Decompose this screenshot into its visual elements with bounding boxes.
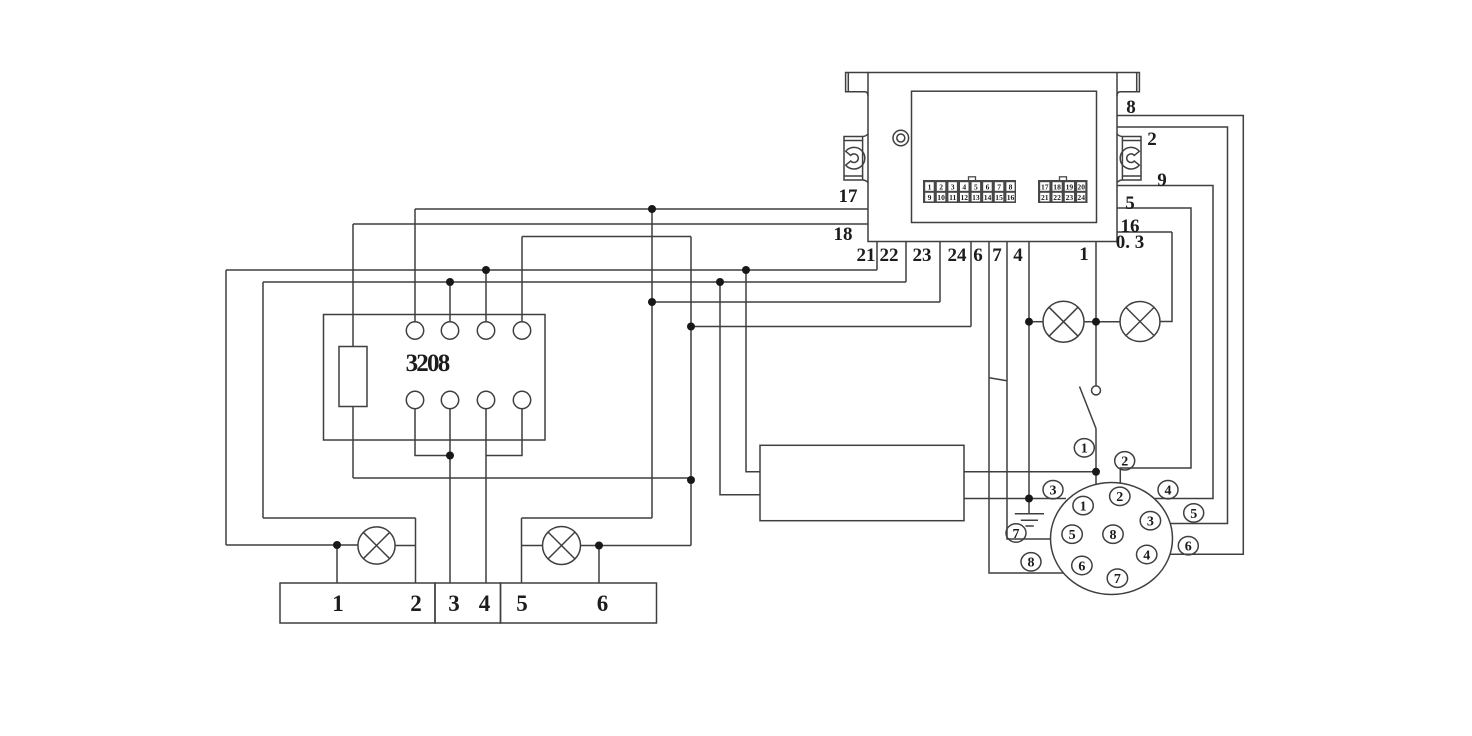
control unit U1 outer case [868, 73, 1117, 242]
wire 22 horizontal [263, 281, 906, 283]
connector block J1 pins 1-16 [923, 177, 1016, 203]
svg-text:20: 20 [1077, 182, 1085, 191]
relay terminal b2 [441, 391, 458, 408]
node at wire4 lamp E3 [1025, 318, 1033, 326]
node at 478/691 [687, 476, 695, 484]
node at 22/720 [716, 278, 724, 286]
relay terminal c4 [513, 322, 530, 339]
wire lamp E3 left link [1029, 321, 1043, 323]
wire c4 riser [521, 237, 523, 322]
wire lamp E2 left link [522, 545, 543, 547]
right mounting bracket [1117, 134, 1141, 183]
svg-text:7: 7 [997, 182, 1001, 191]
connector block J1 cells row2 pins 9-16 [925, 193, 1014, 202]
svg-text:7: 7 [992, 245, 1002, 266]
node at 21/c3 [482, 266, 490, 274]
svg-text:1: 1 [1079, 244, 1089, 265]
P1 pin 3 [1140, 512, 1160, 530]
top-right mounting tab [1117, 73, 1139, 96]
svg-text:18: 18 [1053, 182, 1061, 191]
P1 pin 8 [1103, 525, 1123, 543]
svg-text:13: 13 [972, 193, 980, 202]
P1 pin 6 [1072, 556, 1092, 574]
relay terminal b4 [513, 391, 530, 408]
wire b1 drop [415, 409, 450, 456]
connector block J1 cells row1 pins 1-8 [925, 182, 1014, 191]
wire 22 stub from box [905, 242, 907, 283]
wire 24 stub from box [970, 242, 972, 327]
svg-text:8: 8 [1028, 556, 1035, 571]
svg-text:1: 1 [1080, 500, 1087, 515]
svg-text:8: 8 [1126, 97, 1136, 118]
wire c3 riser [485, 270, 487, 322]
relay terminal c3 [477, 322, 494, 339]
wire 2 run [1117, 127, 1228, 524]
svg-text:9: 9 [928, 193, 932, 202]
terminal strip X3 (5,6) [501, 583, 657, 623]
node at wire1 lamps [1092, 318, 1100, 326]
wire lamp E4 right link [1160, 232, 1172, 322]
wire b4 drop [486, 409, 522, 456]
wire lamp E2 top feed horizontal [522, 517, 653, 519]
wire 22 to terminal2 horizontal [263, 517, 416, 519]
wire coil bottom drop [352, 407, 354, 479]
terminal strip numbers [332, 591, 608, 616]
connector block J2 pins 17-24 [1038, 177, 1088, 203]
terminal strip X1 (1,2) [280, 583, 435, 623]
node at 17/652 [648, 205, 656, 213]
wire label circled 8 [1021, 553, 1041, 571]
wire terminal5 drop [521, 518, 523, 583]
wire R1 right to ground node [964, 498, 1066, 500]
wire 21 left vertical [225, 270, 227, 545]
wire R1 right to switch node [964, 471, 1096, 473]
svg-text:8: 8 [1009, 182, 1013, 191]
relay K1 box [324, 315, 546, 441]
wire node746 drop to R1 [746, 270, 760, 472]
wire label circled 4 [1158, 481, 1178, 499]
svg-text:7: 7 [1114, 572, 1121, 587]
wire c4 horizontal [522, 236, 691, 238]
wire 23 horizontal [652, 301, 940, 303]
node at 21/746 [742, 266, 750, 274]
svg-text:23: 23 [1066, 193, 1074, 202]
node at b1/b2 [446, 452, 454, 460]
relay terminal b3 [477, 391, 494, 408]
wire 23 stub from box [939, 242, 941, 303]
relay terminal b1 [406, 391, 423, 408]
node at 24/691 [687, 323, 695, 331]
svg-text:4: 4 [962, 182, 966, 191]
wire coil-top riser [352, 224, 354, 347]
wire label circled 2 [1115, 452, 1135, 470]
P1 pin 5 [1062, 525, 1082, 543]
wire terminal2 drop [415, 518, 417, 583]
wire 6 drop [989, 242, 1063, 574]
svg-text:3: 3 [951, 182, 955, 191]
wire switch to connector [1095, 429, 1097, 485]
svg-text:6: 6 [597, 591, 609, 616]
P1 pin 2 [1110, 487, 1130, 505]
svg-text:8: 8 [1110, 528, 1117, 543]
wire b3 to terminal 4 [485, 409, 487, 583]
svg-text:6: 6 [1078, 559, 1085, 574]
jog wire6-wire7 [989, 378, 1007, 381]
svg-text:2: 2 [939, 182, 943, 191]
svg-text:14: 14 [984, 193, 992, 202]
wire 7 drop [1007, 242, 1051, 540]
wire 17 horizontal [415, 208, 868, 210]
wire lamp E1 left feed [226, 544, 358, 546]
svg-text:3: 3 [448, 591, 460, 616]
node vertical 652 [651, 209, 653, 518]
wire lamp E1 right link [395, 545, 416, 547]
svg-text:3208: 3208 [406, 350, 450, 377]
svg-text:6: 6 [1185, 540, 1192, 555]
wire c1 riser [414, 209, 416, 322]
wire 24 horizontal [691, 326, 971, 328]
svg-text:24: 24 [1077, 193, 1085, 202]
svg-text:0. 3: 0. 3 [1116, 232, 1145, 253]
P1 pin 7 [1107, 569, 1127, 587]
svg-text:2: 2 [1116, 490, 1123, 505]
control unit inner face plate [912, 91, 1097, 222]
round connector P1 body [1051, 483, 1173, 595]
svg-text:11: 11 [949, 193, 956, 202]
wire 21 horizontal [226, 269, 877, 271]
wire label circled 6 [1178, 537, 1198, 555]
terminal strip X2 (3,4) [435, 583, 501, 623]
screw hole [893, 130, 909, 146]
node vertical 691 [690, 237, 692, 546]
wire 9 run [1117, 186, 1213, 499]
wire 5 run [1117, 208, 1191, 483]
svg-text:16: 16 [1007, 193, 1015, 202]
svg-text:5: 5 [516, 591, 528, 616]
svg-text:1: 1 [1081, 442, 1088, 457]
node at ground wire4 [1025, 495, 1033, 503]
svg-text:5: 5 [1190, 507, 1197, 522]
wire coil bottom horizontal [353, 477, 691, 479]
svg-text:6: 6 [973, 245, 983, 266]
lamp E3 top-right-left [1043, 301, 1084, 342]
svg-text:21: 21 [857, 245, 876, 266]
svg-text:1: 1 [928, 182, 932, 191]
connector block J2 cells row1 pins 17-20 [1040, 182, 1085, 191]
svg-text:3: 3 [1050, 484, 1057, 499]
relay terminal c1 [406, 322, 423, 339]
lamp E1 bottom-left [358, 527, 395, 564]
wire 16 horizontal [1117, 231, 1172, 233]
wire label circled 3 [1043, 481, 1063, 499]
svg-text:21: 21 [1041, 193, 1049, 202]
wire lamps E3-E4 link [1084, 321, 1120, 323]
svg-text:2: 2 [410, 591, 422, 616]
relay terminal c2 [441, 322, 458, 339]
P1 pin 4 [1137, 545, 1157, 563]
wire 18 horizontal [353, 223, 868, 225]
svg-text:4: 4 [1013, 245, 1023, 266]
node at lamp E2 terminal6 [595, 542, 603, 550]
svg-text:3: 3 [1147, 515, 1154, 530]
svg-text:24: 24 [948, 245, 968, 266]
svg-text:2: 2 [1147, 129, 1157, 150]
wire 21 stub from box [876, 242, 878, 271]
svg-text:22: 22 [880, 245, 899, 266]
node at lamp E1 terminal1 [333, 541, 341, 549]
top-left mounting tab [846, 73, 868, 96]
wire 22 left vertical [262, 282, 264, 518]
lamp E2 bottom-middle [543, 527, 581, 565]
wire lamp E2 right horizontal [581, 545, 692, 547]
svg-text:17: 17 [839, 186, 859, 207]
svg-text:5: 5 [974, 182, 978, 191]
svg-text:9: 9 [1157, 170, 1167, 191]
svg-text:12: 12 [961, 193, 969, 202]
P1 pin 1 [1073, 496, 1093, 514]
svg-text:5: 5 [1125, 193, 1135, 214]
svg-text:4: 4 [479, 591, 491, 616]
svg-text:10: 10 [937, 193, 945, 202]
wire label circled 5 [1184, 504, 1204, 522]
wire b2 to terminal 3 [449, 409, 451, 583]
svg-text:18: 18 [834, 224, 853, 245]
svg-text:17: 17 [1041, 182, 1049, 191]
connector block J2 cells row2 pins 21-24 [1040, 193, 1085, 202]
svg-text:23: 23 [913, 245, 932, 266]
lamp E4 top-right-right [1120, 302, 1160, 342]
svg-text:15: 15 [995, 193, 1003, 202]
left mounting bracket [844, 134, 868, 183]
switch S1 [1080, 386, 1101, 429]
svg-text:22: 22 [1053, 193, 1061, 202]
wire terminal6 stub [598, 546, 600, 584]
svg-text:4: 4 [1143, 548, 1150, 563]
svg-text:4: 4 [1165, 484, 1172, 499]
wire 8 run [1117, 116, 1243, 555]
wire node720 drop to R1 [720, 282, 760, 495]
wire label circled 1 [1074, 439, 1094, 457]
wire 1 drop to switch [1095, 242, 1097, 386]
svg-text:19: 19 [1066, 182, 1074, 191]
node at 23/652 [648, 298, 656, 306]
node at 22/c2 [446, 278, 454, 286]
wire 4 drop [1028, 242, 1030, 499]
svg-text:5: 5 [1069, 528, 1076, 543]
wire label circled 7 [1006, 524, 1026, 542]
wire terminal1 stub [336, 545, 338, 583]
svg-text:6: 6 [986, 182, 990, 191]
node at switch R1 [1092, 468, 1100, 476]
svg-text:1: 1 [332, 591, 344, 616]
relay coil [339, 347, 367, 407]
ground symbol [1015, 499, 1044, 527]
resistor block R1 [760, 445, 964, 520]
wire c2 riser [449, 282, 451, 322]
